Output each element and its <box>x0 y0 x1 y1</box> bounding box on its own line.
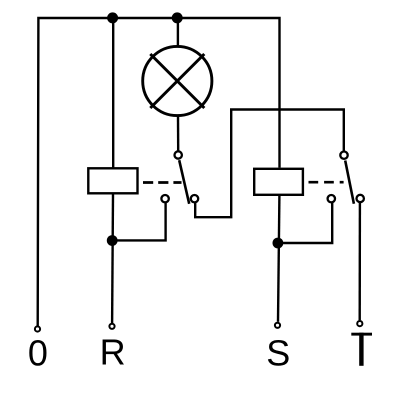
svg-text:0: 0 <box>28 333 48 374</box>
svg-text:S: S <box>266 332 290 373</box>
svg-text:R: R <box>100 332 126 373</box>
